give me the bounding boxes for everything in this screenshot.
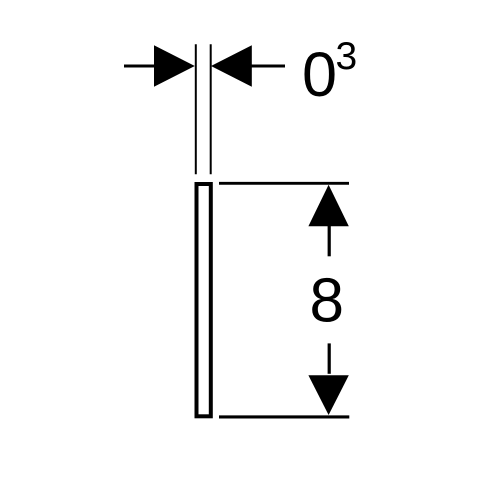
svg-text:3: 3 xyxy=(336,35,358,78)
vertical dimension line lower xyxy=(328,343,331,373)
vertical dimension line upper xyxy=(328,226,331,256)
arrow pointing left xyxy=(211,45,252,86)
extension line left xyxy=(195,44,197,174)
arrow pointing down xyxy=(308,375,348,415)
dimension line top xyxy=(219,182,349,185)
dimension tail right xyxy=(252,65,286,68)
dimension line bottom xyxy=(219,415,349,418)
panel side view xyxy=(197,184,211,416)
dimension tail left xyxy=(124,65,156,68)
arrow pointing right xyxy=(154,45,195,86)
extension line right xyxy=(210,44,212,174)
svg-text:8: 8 xyxy=(310,267,344,336)
arrow pointing up xyxy=(308,185,348,227)
svg-text:0: 0 xyxy=(302,40,337,110)
